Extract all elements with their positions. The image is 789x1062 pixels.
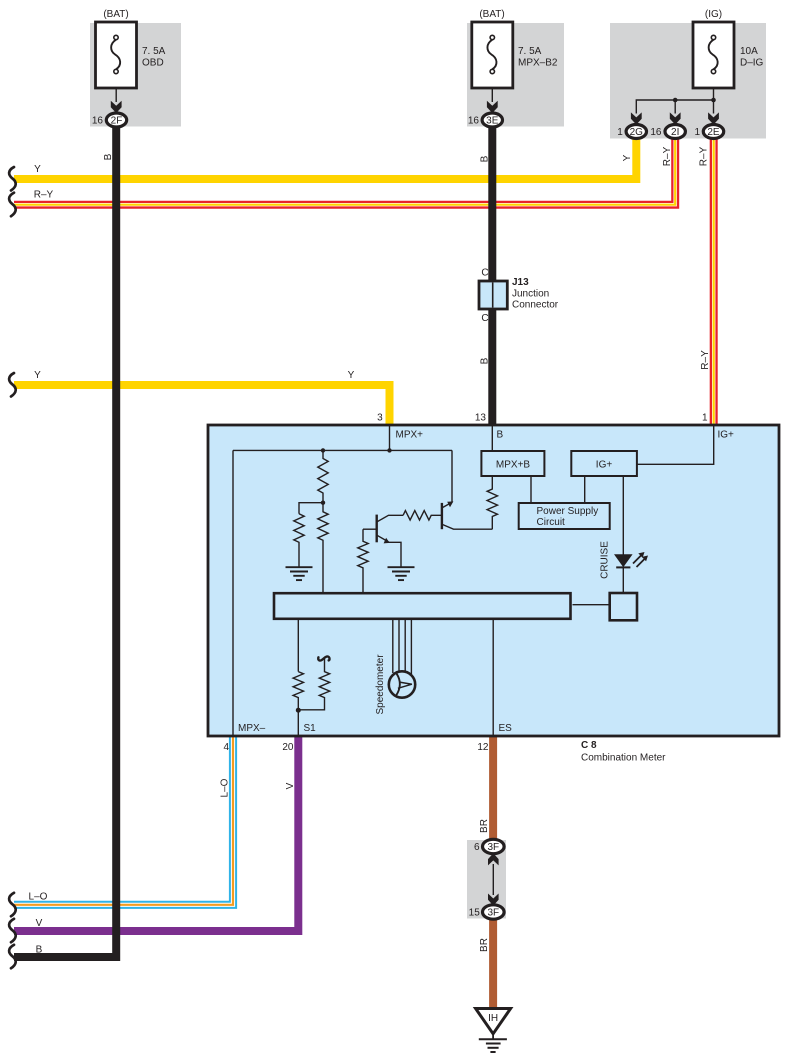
- fuse block panel MPX-B2 (BAT): [467, 9, 564, 127]
- connector oval 2I pin 16: [650, 125, 685, 139]
- svg-text:1: 1: [694, 127, 700, 138]
- junction connector J13: [479, 268, 559, 325]
- svg-text:(BAT): (BAT): [479, 9, 504, 20]
- svg-text:1: 1: [702, 413, 708, 424]
- speedometer wires: [393, 620, 412, 674]
- svg-text:Y: Y: [622, 154, 633, 161]
- wire label R-Y vertical above IG+ pin: [700, 350, 711, 370]
- label CRUISE vertical: [600, 541, 611, 579]
- svg-text:D–IG: D–IG: [740, 58, 764, 69]
- junction dot at 2I branch: [673, 98, 678, 103]
- connector oval 2F pin 16: [92, 113, 127, 127]
- wire R1 junction to R2: [299, 503, 323, 514]
- wire label Y vertical at 2G: [622, 154, 633, 161]
- wire label B vertical top left: [103, 153, 114, 160]
- junction dot rail/MPX+: [387, 448, 391, 452]
- svg-text:(IG): (IG): [705, 9, 722, 20]
- svg-text:J13: J13: [512, 277, 529, 288]
- wire IG+ block to LED: [622, 476, 624, 555]
- wire fuse D-IG branch: [636, 88, 713, 114]
- svg-text:R–Y: R–Y: [34, 190, 54, 201]
- speedometer gauge: [389, 671, 415, 697]
- connector oval 2E pin 1: [694, 125, 723, 139]
- wire B thick black from 3E to pin 13: [488, 126, 496, 426]
- circuit bus bar box: [274, 593, 571, 619]
- ground internal G2: [388, 567, 415, 580]
- junction dot below R1: [321, 501, 325, 505]
- resistor R3: [318, 503, 328, 592]
- resistor R7: [293, 672, 303, 710]
- svg-text:2I: 2I: [671, 127, 679, 138]
- break squiggle at B left end: [9, 945, 16, 969]
- svg-text:CRUISE: CRUISE: [600, 541, 611, 579]
- transistor Q2: [442, 450, 492, 529]
- break squiggle at V left end: [9, 919, 16, 943]
- connector arrow into 2E: [708, 112, 719, 124]
- svg-text:B: B: [480, 155, 491, 162]
- connector arrow into 2F: [111, 101, 122, 113]
- connector oval 3F pin 6: [474, 839, 504, 853]
- resistor R1: [318, 450, 328, 502]
- fuse 7.5A OBD: [96, 22, 166, 88]
- wire R-Y vertical from 2E to IG+ pin 1: [710, 138, 718, 426]
- block IG+: [571, 451, 637, 476]
- LED cruise indicator: [614, 552, 648, 593]
- transistor Q1: [363, 515, 403, 567]
- pin 4 MPX- label: [223, 723, 265, 753]
- wire MPX+B to power supply: [530, 476, 532, 503]
- wire BR brown from ES pin 12 to ground IH: [489, 736, 497, 1008]
- svg-text:2F: 2F: [111, 116, 123, 127]
- node MPX+ internal rail: [233, 449, 452, 451]
- break squiggle at Y left end: [9, 167, 16, 191]
- pin 20 S1 label: [282, 723, 316, 753]
- wire L-O from MPX- pin 4: [14, 736, 233, 905]
- wire label V vertical: [285, 782, 296, 789]
- block MPX+B: [481, 451, 544, 476]
- ground internal G1: [286, 567, 313, 580]
- svg-text:C: C: [481, 313, 488, 324]
- resistor R4: [358, 529, 368, 592]
- wire bus to switch square: [573, 604, 610, 606]
- wire Y horizontal from 2G: [14, 138, 636, 179]
- svg-text:R–Y: R–Y: [699, 146, 710, 166]
- connector oval 3F pin 15: [469, 905, 504, 919]
- wire Y horizontal to MPX+ pin 3: [14, 370, 390, 426]
- wire bus to S1 resistors: [297, 620, 299, 672]
- pin 1 IG+ label: [702, 413, 734, 441]
- break squiggle at Y2 left end: [9, 373, 16, 397]
- fuse 10A D-IG: [693, 22, 764, 88]
- svg-text:IH: IH: [488, 1013, 498, 1024]
- svg-text:MPX+: MPX+: [396, 430, 424, 441]
- wire label B vertical middle lower: [480, 357, 491, 364]
- resistor R5: [403, 511, 441, 520]
- wire fuse OBD to connector: [115, 88, 117, 102]
- svg-text:7. 5A: 7. 5A: [518, 46, 542, 57]
- fuse block panel D-IG (IG): [610, 9, 766, 139]
- wire label L-O vertical: [220, 778, 231, 797]
- fuse 7.5A MPX-B2: [472, 22, 558, 88]
- svg-text:7. 5A: 7. 5A: [142, 46, 166, 57]
- wire label BR vertical upper: [479, 819, 490, 833]
- svg-text:12: 12: [477, 742, 489, 753]
- svg-text:MPX–B2: MPX–B2: [518, 58, 558, 69]
- svg-text:MPX–: MPX–: [238, 723, 266, 734]
- svg-text:R–Y: R–Y: [700, 350, 711, 370]
- svg-text:Speedometer: Speedometer: [375, 654, 386, 715]
- svg-text:L–O: L–O: [220, 778, 231, 797]
- connector arrow up from 3F/6: [488, 853, 499, 865]
- junction dot at 2E branch: [711, 98, 716, 103]
- resistor R6: [487, 476, 497, 529]
- svg-text:V: V: [285, 782, 296, 789]
- pin 13 B label: [475, 413, 504, 441]
- wire B thick black from 2F down and to left edge: [14, 126, 116, 957]
- wire label BR vertical lower: [479, 938, 490, 952]
- connector oval 2G pin 1: [617, 125, 646, 139]
- svg-text:L–O: L–O: [29, 892, 48, 903]
- svg-text:BR: BR: [479, 819, 490, 833]
- svg-text:OBD: OBD: [142, 58, 164, 69]
- switch square cruise: [610, 593, 637, 620]
- connector arrow into 2I: [670, 112, 681, 124]
- connector oval 3E pin 16: [468, 113, 503, 127]
- svg-text:3F: 3F: [487, 842, 499, 853]
- svg-text:20: 20: [282, 742, 294, 753]
- svg-text:B: B: [497, 430, 504, 441]
- ground IH: [476, 1009, 511, 1053]
- wire B stub to MPX+B: [491, 426, 493, 451]
- svg-text:3F: 3F: [487, 908, 499, 919]
- connector panel 3F: [467, 840, 506, 919]
- svg-text:R–Y: R–Y: [662, 146, 673, 166]
- svg-text:Junction: Junction: [512, 289, 549, 300]
- wire label B vertical middle upper: [480, 155, 491, 162]
- junction dot rail/R1: [321, 448, 325, 452]
- break squiggle at L-O left end: [9, 893, 16, 917]
- block power supply circuit: [519, 503, 610, 529]
- svg-text:3: 3: [377, 413, 383, 424]
- svg-text:Y: Y: [348, 370, 355, 381]
- svg-text:IG+: IG+: [718, 430, 735, 441]
- svg-text:4: 4: [223, 742, 229, 753]
- wire left internal vertical to MPX- pin 4: [232, 450, 234, 735]
- pin 3 MPX+ label: [377, 413, 423, 441]
- wire bus to ES pin 12: [492, 620, 494, 735]
- svg-text:S1: S1: [304, 723, 317, 734]
- svg-text:MPX+B: MPX+B: [496, 460, 531, 471]
- svg-text:V: V: [36, 918, 43, 929]
- svg-text:16: 16: [92, 116, 104, 127]
- svg-text:Combination Meter: Combination Meter: [581, 753, 666, 764]
- svg-text:15: 15: [469, 908, 481, 919]
- svg-text:Y: Y: [34, 164, 41, 175]
- svg-text:Connector: Connector: [512, 300, 559, 311]
- label Speedometer vertical: [375, 654, 386, 715]
- svg-text:Power Supply: Power Supply: [537, 506, 599, 517]
- svg-text:16: 16: [468, 116, 480, 127]
- svg-text:C: C: [481, 268, 488, 279]
- wire V from S1 pin 20: [14, 736, 298, 931]
- junction dot S1: [296, 708, 301, 713]
- wire between 3F connectors: [492, 864, 494, 895]
- combination meter C8 box: [208, 425, 779, 764]
- svg-text:ES: ES: [499, 723, 513, 734]
- break squiggle at R-Y left end: [9, 193, 16, 217]
- resistor R8: [298, 659, 329, 710]
- wire label R-Y vertical at 2E: [699, 146, 710, 166]
- wire MPX+ stub from pin 3: [389, 426, 391, 450]
- svg-text:6: 6: [474, 842, 480, 853]
- wire label R-Y vertical at 2I: [662, 146, 673, 166]
- svg-text:2G: 2G: [630, 127, 644, 138]
- svg-text:Y: Y: [34, 370, 41, 381]
- wire IG+ block to pin 1: [637, 426, 714, 464]
- svg-text:B: B: [36, 945, 43, 956]
- svg-text:IG+: IG+: [596, 460, 613, 471]
- fuse block panel OBD (BAT): [90, 9, 181, 127]
- sensor curl element: [318, 656, 329, 660]
- wire fuse MPX-B2 to connector: [491, 88, 493, 102]
- svg-text:B: B: [480, 357, 491, 364]
- svg-text:C 8: C 8: [581, 740, 597, 751]
- connector arrow down into 3F/15: [488, 894, 499, 906]
- svg-text:2E: 2E: [707, 127, 720, 138]
- wire R-Y horizontal from 2I: [14, 138, 675, 205]
- svg-text:1: 1: [617, 127, 623, 138]
- svg-text:B: B: [103, 153, 114, 160]
- svg-text:13: 13: [475, 413, 487, 424]
- wire IG+ block to power supply: [584, 476, 586, 503]
- svg-text:16: 16: [650, 127, 662, 138]
- svg-text:Circuit: Circuit: [537, 517, 566, 528]
- svg-text:(BAT): (BAT): [103, 9, 128, 20]
- svg-text:10A: 10A: [740, 46, 758, 57]
- svg-text:3E: 3E: [486, 116, 499, 127]
- svg-text:BR: BR: [479, 938, 490, 952]
- resistor R2: [294, 514, 304, 567]
- connector arrow into 2G: [631, 112, 642, 124]
- wire junction to S1 pin 20: [297, 710, 299, 735]
- connector arrow into 3E: [487, 101, 498, 113]
- pin 12 ES label: [477, 723, 512, 753]
